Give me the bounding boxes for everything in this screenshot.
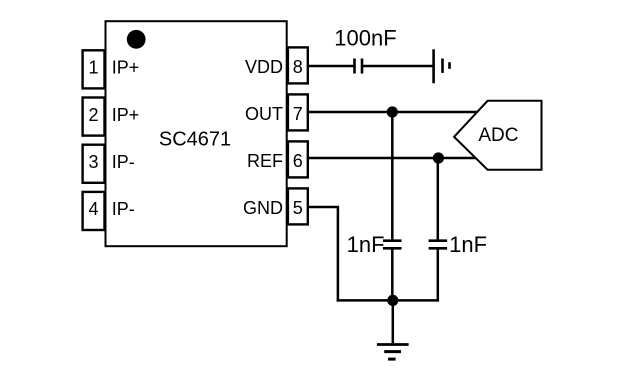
svg-text:OUT: OUT [245, 104, 283, 124]
capacitor C2 1nF (left, vertical) [383, 241, 402, 249]
svg-text:GND: GND [243, 198, 283, 218]
svg-text:6: 6 [293, 151, 303, 171]
ADC label [478, 125, 518, 146]
op-amp U1 SC4671 body [106, 21, 287, 246]
pin 4 box [83, 192, 105, 230]
svg-text:1: 1 [88, 58, 98, 78]
pin 5 name GND [243, 198, 283, 218]
C1 value label 100nF [334, 25, 396, 50]
U1 label SC4671 [159, 128, 231, 150]
node junction dot on REF wire [433, 152, 444, 163]
svg-text:IP-: IP- [112, 199, 135, 219]
svg-text:2: 2 [88, 105, 98, 125]
pin 3 name IP- [112, 152, 135, 172]
svg-text:IP+: IP+ [112, 105, 140, 125]
svg-text:ADC: ADC [478, 125, 518, 146]
pin 2 name IP+ [112, 105, 140, 125]
svg-text:REF: REF [247, 151, 283, 171]
capacitor C3 1nF (right, vertical) [429, 241, 448, 249]
wire C2 bottom to ground rail [391, 250, 394, 301]
wire C3 branch (REF node down) [437, 158, 440, 240]
svg-text:VDD: VDD [245, 57, 283, 77]
pin 5 box [288, 188, 308, 224]
pin 1 number [88, 58, 98, 78]
wire ground rail (bottom horizontal) [337, 299, 439, 302]
wire C3 bottom to ground rail [437, 250, 440, 302]
wire REF pin 6 to ADC [309, 157, 479, 160]
C3 value label 1nF [449, 232, 487, 257]
node junction dot on OUT wire [387, 106, 398, 117]
svg-text:100nF: 100nF [334, 25, 396, 50]
pin 7 box [288, 94, 308, 130]
pin 5 number [293, 198, 303, 218]
pin 1 name IP+ [112, 58, 140, 78]
pin 3 box [83, 145, 105, 183]
ground (sideways) at C1 [434, 49, 450, 83]
ADC block (pentagon) [454, 101, 541, 170]
pin 4 name IP- [112, 199, 135, 219]
pin 8 name VDD [245, 57, 283, 77]
pin 8 box [288, 47, 308, 83]
svg-text:7: 7 [293, 104, 303, 124]
pin 7 number [293, 104, 303, 124]
pin 3 number [88, 152, 98, 172]
U1 pin-1 marker dot [127, 30, 146, 49]
capacitor C1 100nF (series, horizontal) [355, 59, 363, 74]
pin 2 number [88, 105, 98, 125]
svg-text:1nF: 1nF [347, 232, 385, 257]
svg-text:1nF: 1nF [449, 232, 487, 257]
ground (bottom) [377, 345, 409, 360]
wire C2 branch (OUT node down) [391, 112, 394, 240]
pin 8 number [293, 57, 303, 77]
pin 6 number [293, 151, 303, 171]
C2 value label 1nF [347, 232, 385, 257]
svg-text:IP+: IP+ [112, 58, 140, 78]
svg-text:IP-: IP- [112, 152, 135, 172]
wire C1 to ground [363, 65, 434, 68]
pin 7 name OUT [245, 104, 283, 124]
pin 2 box [83, 98, 105, 136]
svg-text:4: 4 [88, 199, 98, 219]
pin 6 name REF [247, 151, 283, 171]
pin 4 number [88, 199, 98, 219]
wire GND pin 5 down to ground rail [309, 207, 338, 302]
wire ground stem [392, 300, 395, 343]
svg-text:3: 3 [88, 152, 98, 172]
svg-text:5: 5 [293, 198, 303, 218]
svg-text:8: 8 [293, 57, 303, 77]
pin 1 box [83, 50, 105, 88]
wire OUT pin 7 to ADC [309, 111, 479, 114]
node junction dot on ground rail [387, 295, 398, 306]
pin 6 box [288, 141, 308, 177]
wire VDD pin 8 to C1 [309, 65, 354, 68]
svg-text:SC4671: SC4671 [159, 128, 231, 150]
